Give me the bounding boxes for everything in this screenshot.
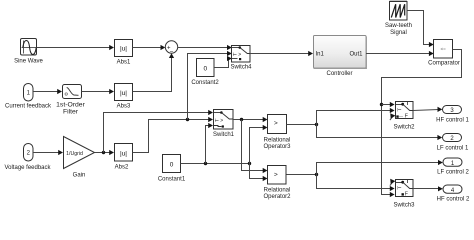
block Abs1 xyxy=(115,40,133,66)
wire Relational Operator3 output junction xyxy=(287,123,319,126)
block 1st-Order Filter xyxy=(56,85,85,116)
wire branch Constant1 down to Relational Operator2 input2 xyxy=(250,164,268,182)
sum junction Add xyxy=(165,41,177,56)
svg-text:Saw-teeth: Saw-teeth xyxy=(385,23,412,29)
wire Saw-teeth Signal to Comparator input 1 xyxy=(407,11,434,48)
wire Switch1 output to Relational Operator3 input1 with junction xyxy=(233,117,268,122)
outport LF control 1 xyxy=(437,134,469,152)
wire Comparator output loop to Switch2 input1 and Switch3 input3 xyxy=(380,50,462,198)
svg-text:Voltage feedback: Voltage feedback xyxy=(4,165,51,171)
wire branch Constant1 to Switch1 input 3 xyxy=(206,123,214,164)
wire branch Switch1 output down to Relational Operator2 input1 xyxy=(242,120,268,174)
svg-text:Controller: Controller xyxy=(326,71,352,77)
wire stub arrow Switch3 input 1 xyxy=(390,179,396,186)
svg-text:In1: In1 xyxy=(316,52,325,58)
svg-text:Operator2: Operator2 xyxy=(263,194,291,200)
block Relational Operator2 xyxy=(263,166,291,201)
source block Current feedback inport 1 xyxy=(5,84,52,110)
svg-text:HF control 1: HF control 1 xyxy=(436,118,469,124)
svg-text:Switch1: Switch1 xyxy=(213,132,235,138)
wire Current feedback to 1st-Order Filter xyxy=(33,89,62,94)
block Switch1 xyxy=(213,110,235,138)
wire Relational Operator2 output junction xyxy=(287,173,319,176)
svg-text:Abs1: Abs1 xyxy=(117,60,131,66)
wire 1st-Order Filter to Abs3 xyxy=(82,89,115,94)
wire Sine Wave to Abs1 xyxy=(37,45,115,50)
svg-text:Relational: Relational xyxy=(264,188,291,194)
svg-text:Filter: Filter xyxy=(63,109,79,116)
wire Switch3 output to HF control 2 xyxy=(413,186,443,191)
svg-text:F: F xyxy=(405,114,408,120)
svg-text:0: 0 xyxy=(203,65,207,72)
svg-text:Out1: Out1 xyxy=(349,52,363,58)
wire stub arrow Switch2 input 3 xyxy=(390,113,396,120)
block Abs3 xyxy=(115,84,133,110)
svg-text:Switch2: Switch2 xyxy=(393,124,415,130)
svg-text:Comparator: Comparator xyxy=(428,61,460,67)
svg-text:Gain: Gain xyxy=(73,173,86,179)
svg-text:Signal: Signal xyxy=(390,30,407,36)
svg-text:>: > xyxy=(274,120,278,127)
outport LF control 2 xyxy=(437,158,469,176)
wire Abs3 to Sum bottom input xyxy=(133,53,175,91)
svg-text:⊢: ⊢ xyxy=(397,185,401,192)
svg-text:<=: <= xyxy=(441,46,447,51)
wire branch up to Switch1 input 1 xyxy=(104,110,214,153)
svg-text:Constant2: Constant2 xyxy=(191,80,219,86)
svg-text:Switch3: Switch3 xyxy=(393,202,415,208)
svg-text:1st-Order: 1st-Order xyxy=(56,102,85,109)
svg-text:⊢: ⊢ xyxy=(397,107,401,114)
svg-text:>: > xyxy=(274,172,278,179)
block Switch4 xyxy=(230,46,252,71)
source block Saw-teeth Signal xyxy=(385,0,412,36)
subsystem block Controller xyxy=(314,36,367,78)
block Relational Operator3 xyxy=(263,115,291,151)
wire Voltage feedback to Gain xyxy=(33,150,63,155)
outport HF control 2 xyxy=(437,185,470,203)
svg-text:Sine Wave: Sine Wave xyxy=(14,59,43,65)
svg-text:Switch4: Switch4 xyxy=(230,65,252,71)
block Constant2 xyxy=(191,59,219,87)
svg-text:⊢ >: ⊢ > xyxy=(215,117,224,124)
wire Abs2 to Switch1 input 2 with junction xyxy=(133,117,214,153)
wire branch up to Switch4 input 2 xyxy=(188,51,232,120)
svg-text:F: F xyxy=(405,192,408,198)
wire branch RelOp3 down to LF control 1 xyxy=(317,125,443,141)
svg-text:⊢ >: ⊢ > xyxy=(233,51,242,58)
wire Constant2 to Switch4 input 3 xyxy=(214,56,232,68)
wire Constant1 trunk with junctions xyxy=(181,162,252,165)
wire branch RelOp3 up to Switch2 input 2 xyxy=(317,108,395,125)
wire Controller to Comparator input 2 xyxy=(366,51,434,56)
wire Gain to Abs2 with branch junction xyxy=(95,150,115,155)
svg-text:1/Ugrid: 1/Ugrid xyxy=(66,151,83,157)
source block Sine Wave xyxy=(14,39,43,65)
svg-text:Current feedback: Current feedback xyxy=(5,103,52,109)
wire branch RelOp2 up to LF control 2 xyxy=(317,160,443,175)
wire branch RelOp2 down to Switch3 input 2 xyxy=(317,175,395,192)
block Constant1 xyxy=(158,155,186,183)
svg-text:Constant1: Constant1 xyxy=(158,177,186,183)
block Gain 1/Ugrid xyxy=(64,137,95,179)
block Comparator xyxy=(428,40,460,67)
svg-text:Abs3: Abs3 xyxy=(117,104,131,110)
svg-text:|u|: |u| xyxy=(120,45,127,52)
wire Switch2 output to HF control 1 xyxy=(413,107,442,112)
svg-text:Abs2: Abs2 xyxy=(115,165,129,171)
svg-text:LF control 1: LF control 1 xyxy=(437,146,469,152)
block Abs2 xyxy=(115,144,133,171)
block Switch3 manual switch xyxy=(393,180,415,209)
wire Sum to Switch4 input 1 xyxy=(178,45,232,50)
block Switch2 manual switch xyxy=(393,102,415,131)
svg-text:0: 0 xyxy=(170,161,174,168)
svg-text:LF control 2: LF control 2 xyxy=(437,170,469,176)
svg-text:Operator3: Operator3 xyxy=(263,144,291,150)
wire Switch4 to Controller xyxy=(250,51,313,56)
outport HF control 1 xyxy=(436,106,469,124)
source block Voltage feedback inport 2 xyxy=(4,144,51,171)
svg-text:|u|: |u| xyxy=(120,90,127,97)
svg-text:Relational: Relational xyxy=(264,138,291,144)
wire branch Constant1 up to Relational Operator3 input2 xyxy=(250,125,268,164)
svg-text:HF control 2: HF control 2 xyxy=(437,197,470,203)
svg-text:|u|: |u| xyxy=(120,150,127,157)
wire Abs1 to Sum xyxy=(133,45,166,50)
